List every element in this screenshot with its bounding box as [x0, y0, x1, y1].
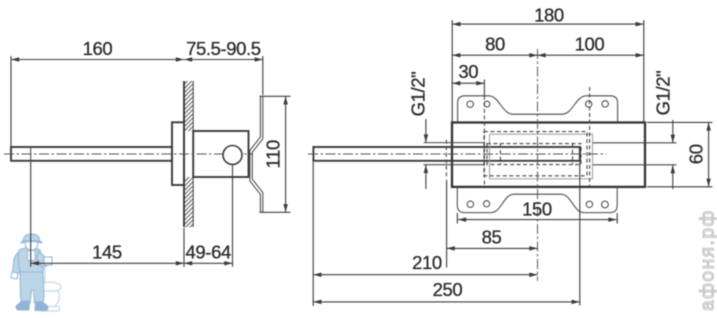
thread extension lines left G1/2: [424, 142, 485, 144]
svg-text:афоня.рф: афоня.рф: [698, 209, 717, 311]
svg-text:210: 210: [412, 252, 442, 273]
bracket side profile: [252, 96, 262, 212]
hidden outline large: [484, 132, 587, 176]
dim 75.5-90.5 line: [184, 59, 263, 61]
dim 85 extension: [446, 180, 448, 268]
port centre hidden lines: [483, 96, 485, 187]
dim 150 extensions: [456, 213, 458, 224]
hidden outline middle: [487, 144, 581, 165]
svg-text:75.5-90.5: 75.5-90.5: [186, 38, 261, 59]
svg-text:60: 60: [685, 144, 706, 164]
svg-text:80: 80: [485, 33, 505, 54]
escutcheon flange: [172, 122, 184, 185]
dim 180 extensions: [451, 20, 453, 122]
centre line horizontal (plan): [308, 153, 606, 155]
hidden vertical marks: [499, 144, 501, 165]
dim 30 extension: [483, 80, 485, 97]
dim 180 line: [452, 23, 644, 25]
dim 160 extension lines: [10, 56, 12, 146]
svg-text:G1/2": G1/2": [407, 72, 428, 117]
svg-text:G1/2": G1/2": [652, 71, 673, 116]
dim 210 extension: [312, 162, 314, 306]
spout tube (plan view): [313, 147, 580, 161]
dim 150 line: [458, 219, 617, 221]
dim 80 line: [452, 54, 537, 56]
svg-text:30: 30: [458, 61, 478, 82]
dim 145 / 49-64 extension lines: [30, 162, 32, 267]
bottom bracket holes: [467, 201, 473, 207]
tube end line: [579, 147, 581, 161]
dim 60 extensions: [647, 121, 713, 123]
top bracket holes: [467, 101, 473, 107]
top mounting bracket: [458, 96, 618, 123]
dim 49-64 line: [184, 262, 233, 264]
centre line (left view): [4, 153, 253, 155]
bottom mounting bracket: [457, 187, 617, 213]
grey offset rect: [490, 134, 593, 179]
dim 85 line: [447, 247, 538, 249]
centre line vertical (plan): [537, 49, 539, 281]
hidden line wall plane: [445, 140, 447, 179]
dim 145 line: [31, 262, 184, 264]
body (plan view): [452, 123, 645, 187]
svg-text:85: 85: [482, 227, 502, 248]
dim 160 line: [11, 59, 184, 61]
dim 110 extension ticks: [260, 95, 291, 97]
thread extension lines right G1/2: [593, 142, 677, 144]
dim 110 line: [285, 96, 287, 212]
svg-text:49-64: 49-64: [186, 242, 231, 263]
wall right edge: [192, 81, 194, 227]
valve body (left view): [193, 131, 248, 177]
tube ring: [30, 147, 32, 161]
svg-text:150: 150: [522, 199, 552, 220]
svg-text:100: 100: [575, 33, 605, 54]
dim 100 line: [538, 54, 644, 56]
svg-text:250: 250: [433, 279, 463, 300]
watermark plumber logo: [11, 234, 61, 311]
svg-text:160: 160: [83, 38, 113, 59]
wall left edge: [183, 81, 185, 227]
dim 210 line: [313, 274, 537, 276]
valve circle: [223, 146, 242, 165]
svg-text:110: 110: [262, 140, 283, 168]
dim 250 line: [313, 301, 580, 303]
svg-text:145: 145: [92, 242, 122, 263]
dim 30 line: [452, 82, 484, 84]
dim 60 line: [708, 122, 710, 186]
dim 250 extension: [579, 162, 581, 306]
spout tube (left view): [11, 147, 172, 161]
svg-text:180: 180: [534, 5, 564, 26]
